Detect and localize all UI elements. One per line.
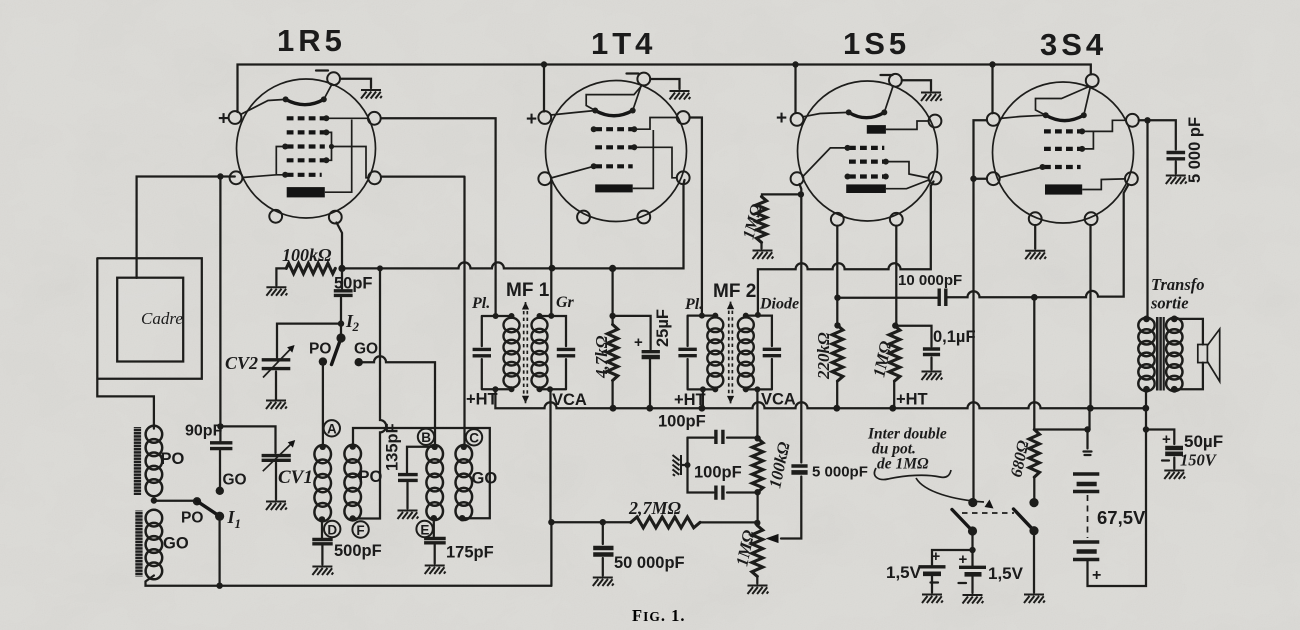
svg-text:+: + — [776, 108, 787, 129]
capacitor 90pF — [210, 443, 232, 449]
svg-text:3S4: 3S4 — [1040, 27, 1107, 62]
wire: 1R5 plate lead to MF1 primary top — [381, 118, 496, 316]
ground below CV2 — [266, 401, 287, 410]
svg-text:67,5V: 67,5V — [1097, 507, 1146, 528]
node: right switch contact — [1029, 498, 1038, 507]
variable capacitor CV1 — [220, 426, 276, 499]
1S5 pins — [889, 74, 902, 87]
label minus at 1R5 top — [316, 69, 328, 71]
wire: secondary to speaker — [1174, 319, 1203, 389]
1T4 internal wire top-left frame — [586, 86, 642, 111]
capacitor 100pF upper — [716, 430, 723, 444]
capacitor 175pF below E — [433, 518, 436, 563]
MF2 primary tuning capacitor — [678, 349, 696, 355]
svg-text:+HT: +HT — [896, 391, 928, 409]
svg-text:+: + — [932, 548, 941, 565]
dashed mechanical link between switch poles — [962, 512, 1014, 514]
capacitor 0,1uF — [895, 326, 932, 370]
3S4 internal wire filament right to top pin — [1084, 88, 1090, 116]
wire: 680 top junction to 67,5V battery + and rail — [1034, 225, 1090, 449]
wire: 100pF bottom line — [688, 438, 758, 493]
IF transformer MF1: frame with tuning caps — [482, 316, 512, 389]
capacitor 50pF — [334, 291, 353, 296]
circled letter C — [466, 429, 482, 445]
node: PO contact of I2 — [319, 357, 327, 365]
1T4 internal wire grid3 to lower-left pin (control grid) — [551, 166, 594, 178]
svg-text:A: A — [327, 422, 337, 437]
svg-text:+HT: +HT — [466, 391, 498, 409]
vacuum tube V3 1S5 envelope — [798, 81, 938, 221]
node: GO contact of I2 — [355, 358, 363, 366]
svg-text:CV2: CV2 — [225, 353, 258, 373]
svg-text:90pF: 90pF — [185, 423, 223, 440]
node: coil D bottom — [319, 516, 325, 522]
svg-text:D: D — [327, 522, 337, 537]
svg-text:175pF: 175pF — [446, 544, 494, 562]
svg-text:0,1µF: 0,1µF — [933, 328, 976, 346]
resistor 100k diode load — [752, 438, 763, 492]
1S5 anode plate — [846, 184, 886, 193]
ground at 1T4 top — [670, 91, 691, 100]
capacitor 50000pF — [602, 522, 604, 575]
1S5 filament arc — [849, 112, 885, 117]
wire: ground tap on 100pF box — [682, 464, 688, 466]
wiper arrow of 1M potentiometer — [766, 534, 779, 543]
svg-text:2: 2 — [352, 319, 360, 334]
ground below CV1 — [266, 502, 287, 511]
svg-text:50 000pF: 50 000pF — [614, 554, 685, 572]
circled letter D — [324, 521, 340, 537]
node: rail junction 220k bottom — [833, 405, 840, 412]
capacitor 100pF lower — [716, 486, 723, 500]
svg-text:25µF: 25µF — [654, 309, 672, 347]
svg-text:100pF: 100pF — [658, 413, 706, 431]
wire: MF1 bottom-left to +HT rail (drawn with rail) — [492, 386, 498, 392]
output transformer laminated core — [1156, 317, 1165, 391]
ground left of 100pF box (rotated) — [673, 455, 682, 476]
node: top bus junction above 3S4 left pin — [989, 61, 995, 67]
svg-text:500pF: 500pF — [334, 542, 382, 560]
svg-text:150V: 150V — [1180, 451, 1218, 470]
svg-text:5 000 pF: 5 000 pF — [1186, 117, 1204, 183]
wire: F-bottom riser from AVC bus down to F coil bottom, hops link line — [352, 268, 386, 518]
wire: 1S5 bottom-right pin riser to 1M — [894, 226, 896, 326]
1R5 internal bracket grids 2+4 and wire to lower-right pin — [326, 132, 368, 177]
node: right switch pivot — [1029, 526, 1038, 535]
label minus right battery — [959, 582, 967, 584]
3S4 internal bracket grids 1+2 and wire to upper-right pin — [1082, 120, 1126, 149]
svg-text:PO: PO — [309, 341, 331, 358]
battery 67,5V dashed middle — [1087, 495, 1089, 538]
node: junction AVC bus with 4.7k riser — [609, 265, 616, 272]
battery 1,5V left — [919, 565, 946, 568]
IF transformer MF2: frame with tuning caps — [688, 316, 716, 390]
svg-text:100pF: 100pF — [694, 464, 742, 482]
node: pivot of switch I2 — [336, 333, 345, 342]
svg-text:VCA: VCA — [761, 391, 796, 409]
wire: AVC bus y=268 from 100k junction to 1T4 lower-right pin, hops over MF1 risers — [342, 180, 685, 268]
svg-text:1T4: 1T4 — [591, 26, 656, 61]
resistor 220k — [832, 325, 843, 381]
wire: MF1 secondary bottom VCA riser down to AF line, hops +HT rail — [549, 389, 551, 522]
potentiometer 1M volume — [752, 526, 763, 577]
wire: 100k bottom to AF junction — [756, 492, 758, 523]
1R5 internal plate wire to grid1 bus — [325, 120, 352, 193]
svg-text:1S5: 1S5 — [843, 26, 910, 61]
1R5 filament arc — [286, 99, 324, 104]
oscillator coil F-PO — [344, 445, 361, 521]
coil GO (antenna) with core bar — [135, 511, 142, 577]
svg-text:+: + — [1092, 567, 1101, 584]
wire: VCA riser continues to bottom bus — [550, 522, 552, 586]
1T4 internal wire filament to + pin — [551, 111, 595, 116]
left switch blade (Inter pole 1) — [952, 510, 973, 532]
svg-text:1,5V: 1,5V — [988, 564, 1024, 583]
node: AF junction volume pot top — [754, 520, 760, 526]
label minus left battery — [931, 581, 939, 583]
3S4 pins — [1086, 74, 1099, 87]
3S4 internal wire grid3 to lower-left pin (control grid) — [1000, 167, 1043, 178]
resistor 4.7k screen feed — [611, 268, 613, 408]
battery 67,5V HT: top = mark — [1084, 452, 1092, 456]
ground below 3S4 lower-left pin — [1034, 225, 1036, 249]
node: junction AF line / VCA riser — [548, 519, 554, 525]
wire: 1T4 top pin to ground — [650, 79, 679, 89]
vacuum tube V4 3S4 envelope — [993, 82, 1134, 223]
MF1 primary winding — [504, 318, 520, 388]
label minus at 1S5 top — [881, 74, 893, 76]
wire: chassis bottom bus y=585.7 — [146, 576, 552, 586]
svg-text:+: + — [218, 109, 229, 130]
node: tee on I1 riser toward CV1 — [217, 423, 223, 429]
svg-text:GO: GO — [163, 535, 189, 553]
ground at 1R5 top — [361, 90, 382, 99]
wire: riser top bus to 1T4 + pin — [543, 65, 545, 112]
3S4 filament arc — [1046, 115, 1084, 120]
svg-text:1,5V: 1,5V — [886, 563, 922, 582]
node: rail end junction on output riser — [1142, 405, 1149, 412]
wire: C-top riser from 1R5 via AVC-bus hop down to coil C — [381, 177, 465, 446]
svg-text:PO: PO — [181, 510, 203, 527]
1R5 anode plate — [287, 187, 325, 197]
1R5 internal wire grid1 to upper-right pin — [326, 117, 368, 119]
node: junction cadre line / 90pF riser — [217, 173, 223, 179]
loudspeaker — [1198, 345, 1208, 363]
node: junction between PO and GO coils, tap to I1 PO contact — [151, 497, 157, 503]
svg-text:+: + — [1162, 431, 1171, 448]
wire: transformer primary bottom down through rail to 50uF junction — [1145, 389, 1147, 429]
node: top bus junction above 1S5 — [792, 61, 798, 67]
node: pivot of switch I1 — [215, 512, 224, 521]
node: rail junction 4.7k bottom — [610, 405, 617, 412]
wire: +HT rail y=408.2 from MF1 bottom to output transformer riser with hops — [495, 389, 1145, 408]
capacitor 135pF across B coil — [407, 447, 435, 509]
wire: right switch pivot to ground — [1033, 531, 1035, 593]
capacitor 5000pF coupling — [791, 464, 807, 467]
1T4 grid rows (3) — [595, 127, 633, 131]
wire: 10000pF line y=297 from 220k riser to 3S4 lower-right pin, hops LT riser and 3S4 plate riser — [838, 185, 1129, 298]
svg-text:PO: PO — [359, 468, 383, 486]
wire: PO contact riser down to coil A top — [322, 362, 324, 446]
svg-text:Gr: Gr — [556, 294, 575, 311]
battery 67,5V upper cell group — [1073, 472, 1099, 475]
svg-text:C: C — [469, 431, 479, 446]
wire: 3S4 lower-left pin to LT riser — [974, 178, 988, 180]
1T4 filament arc — [595, 111, 633, 116]
svg-text:MF 2: MF 2 — [713, 281, 756, 302]
1T4 anode plate — [595, 184, 633, 192]
svg-text:220kΩ: 220kΩ — [814, 332, 833, 380]
vacuum tube V1 1R5 envelope — [237, 79, 376, 218]
node: coil F top — [350, 443, 356, 449]
wire: riser top bus to 1S5 + pin — [794, 65, 796, 114]
3S4 internal filament centre-tap bracket to top pin — [1036, 87, 1090, 116]
3S4 anode plate — [1045, 184, 1082, 194]
capacitor 10000pF (in line, vertical plates) — [939, 289, 946, 307]
svg-text:F: F — [356, 523, 364, 538]
wire: coil tap to PO contact of switch I1 — [154, 500, 197, 502]
wire: LT riser from 3S4 filament pins down to switch contact — [974, 120, 988, 498]
capacitor 500pF below D — [321, 519, 324, 564]
wire: diode line y=269 from MF2 Diode terminal to 1S5 lower-right pin, hops 3 risers — [758, 182, 934, 315]
ground at 1S5 top — [921, 93, 942, 102]
curved arrow to switch — [916, 478, 984, 502]
1T4 pins — [637, 73, 650, 86]
svg-text:GO: GO — [354, 341, 378, 358]
svg-text:50µF: 50µF — [1184, 432, 1223, 451]
circled letter F — [352, 521, 368, 537]
3S4 internal plate wire to lower-right pin — [1082, 179, 1125, 190]
wire: top filament bus (+A) from 1R5 + pin to 3S4 top pin — [238, 65, 1091, 113]
resistor 2,7M AVC — [551, 521, 757, 523]
label minus at 1T4 top — [627, 72, 639, 74]
output transformer secondary — [1166, 318, 1182, 391]
wire: 1R5 bottom-right pin down to junction — [337, 223, 343, 336]
node: GO contact of switch I1 — [216, 487, 224, 495]
wire: 67,5V + to output riser bottom — [1088, 430, 1147, 587]
coil B-E — [426, 445, 443, 520]
wire: 1T4 plate lead to MF2 primary top — [690, 118, 702, 316]
svg-text:2,7MΩ: 2,7MΩ — [628, 498, 682, 518]
svg-text:GO: GO — [223, 472, 247, 489]
MF1 adjustable core (dashed with arrows) — [524, 311, 528, 394]
MF1 secondary winding — [532, 318, 548, 388]
battery 67,5V lower cell group — [1073, 540, 1099, 543]
node: junction AVC bus with oscillator coil riser — [377, 265, 383, 271]
node: bottom bus junction with I1 riser — [216, 583, 222, 589]
oscillator coil A-D — [314, 445, 331, 521]
wire: MF2 +HT stub to rail — [702, 389, 704, 408]
svg-text:de 1MΩ: de 1MΩ — [877, 456, 929, 473]
ground below 100k — [266, 287, 287, 296]
1R5 pins — [327, 72, 340, 85]
node: coil A top — [320, 444, 326, 450]
1T4 internal wire grid2 to lower-right pin — [634, 147, 677, 178]
node: left switch contact — [968, 498, 977, 507]
node: MF2 Diode terminal — [755, 312, 761, 318]
resistor 100k oscillator grid leak — [286, 263, 335, 273]
svg-text:Cadre: Cadre — [141, 309, 183, 328]
vacuum tube V2 1T4 envelope — [546, 81, 687, 222]
svg-text:50pF: 50pF — [334, 275, 373, 293]
coil C-GO — [456, 445, 473, 520]
circled letter B — [418, 429, 434, 445]
MF2 secondary winding — [738, 317, 754, 387]
svg-text:GO: GO — [472, 470, 498, 488]
wire: 1S5 top pin to ground — [902, 80, 931, 90]
wire: 3S4 plate to junction, 5000pF branch and transformer primary — [1139, 120, 1176, 319]
svg-text:CV1: CV1 — [278, 467, 313, 488]
svg-text:5 000pF: 5 000pF — [812, 464, 868, 481]
svg-text:+HT: +HT — [674, 391, 706, 409]
svg-text:4,7kΩ: 4,7kΩ — [592, 335, 611, 379]
svg-text:+: + — [634, 334, 643, 351]
wire: link line y=428 F-top to C-bottom box — [353, 428, 490, 518]
resistor 1M (screen bleeder) — [889, 326, 900, 381]
node: junction AF line / 50000pF — [600, 519, 606, 525]
1S5 internal wire filament to + pin — [803, 112, 849, 116]
wire: 1R5 top pin to ground — [340, 79, 371, 88]
right switch blade (Inter pole 2) — [1014, 509, 1035, 531]
coil PO (antenna) with core bar — [134, 427, 141, 495]
wire: MF2 secondary bottom VCA riser down to 100k, hops rail — [756, 389, 758, 438]
3S4 internal wire filament left to upper-left pin — [1000, 115, 1046, 118]
svg-text:PO: PO — [161, 450, 185, 468]
resistor 680 ohm — [1033, 297, 1035, 498]
1R5 internal wire filament to + pin — [241, 99, 286, 114]
MF2 secondary tuning capacitor — [763, 349, 781, 355]
svg-text:Diode: Diode — [759, 296, 799, 313]
svg-text:B: B — [421, 430, 431, 445]
circled letter A — [324, 420, 340, 436]
output transformer primary — [1138, 318, 1154, 391]
svg-text:10 000pF: 10 000pF — [898, 272, 962, 289]
switch I2 blade — [332, 338, 342, 365]
1S5 internal wire filament to top pin — [884, 87, 893, 113]
svg-text:MF 1: MF 1 — [506, 280, 550, 301]
node: coil F bottom — [350, 515, 356, 521]
label minus at 50uF — [1162, 459, 1169, 461]
node: top bus junction above 1T4 — [541, 61, 547, 67]
svg-text:E: E — [420, 522, 429, 537]
node: rail junction 25uF bottom — [646, 405, 653, 412]
wire: pivot down to battery junction — [971, 531, 973, 566]
svg-text:1: 1 — [235, 516, 242, 531]
capacitor 25uF screen bypass — [613, 316, 651, 408]
svg-text:+: + — [526, 109, 537, 130]
wire: 1S5 grid riser down through 5000pF coupling cap to potentiometer wiper — [781, 194, 801, 538]
1T4 internal wire grid1 to upper-right pin — [634, 118, 677, 130]
variable capacitor CV2 — [276, 324, 341, 400]
wire: MF1 secondary top to 1T4 grid (Gr riser) — [550, 179, 552, 316]
svg-text:1R5: 1R5 — [277, 23, 346, 58]
svg-text:135pF: 135pF — [384, 423, 402, 471]
node: left switch pivot — [968, 526, 977, 535]
node: rail junction battery/3S4 filament riser — [1087, 405, 1094, 412]
1S5 internal plate wire — [886, 180, 929, 189]
wire: branch to left 1,5V battery — [932, 550, 973, 565]
flourish under annotation — [874, 468, 951, 480]
wire: 100k left lead to ground — [276, 268, 286, 285]
battery 1,5V right — [959, 566, 986, 569]
svg-text:FIG. 1.: FIG. 1. — [632, 606, 685, 625]
1S5 internal wire grid2 to lower-right pin — [886, 162, 929, 178]
svg-text:Pl.: Pl. — [684, 296, 703, 313]
1T4 internal plate wire — [633, 130, 654, 188]
wire: riser top bus to 3S4 upper-left pin — [991, 65, 993, 114]
frame antenna Cadre: outer loop — [97, 177, 235, 429]
capacitor 50uF 150V electrolytic — [1146, 430, 1174, 469]
svg-text:+: + — [959, 551, 968, 568]
resistor 1M grid leak of 1S5 — [762, 184, 802, 249]
MF1 primary tuning capacitor — [473, 349, 491, 355]
node: PO contact of switch I1 — [193, 497, 201, 505]
MF2 adjustable core (dashed with arrows) — [729, 311, 733, 395]
switch I1 blade — [197, 501, 220, 516]
svg-text:Pl.: Pl. — [471, 295, 490, 312]
node: rail junction MF2 +HT stub — [699, 405, 706, 412]
node: junction CV2 line on I2 riser — [338, 320, 344, 326]
MF1 secondary tuning capacitor — [557, 349, 575, 355]
node: junction 10000pF line with 680ohm riser — [1031, 294, 1038, 301]
1R5 grid rows (5) — [287, 116, 325, 120]
wire: 1S5 bottom-left pin riser to 220k — [836, 226, 838, 326]
circled letter E — [416, 521, 432, 537]
1T4 internal wire filament to top pin — [633, 86, 642, 111]
1R5 internal bracket grids 3+5 and wire to lower-left pin — [242, 147, 285, 178]
1S5 diode anode bar — [867, 125, 886, 134]
svg-text:100kΩ: 100kΩ — [282, 245, 332, 265]
3S4 grid rows (3) — [1044, 129, 1081, 133]
1S5 grid rows (3) — [849, 146, 884, 150]
1R5 internal wire filament to top pin — [324, 85, 332, 99]
frame antenna Cadre: inner loop — [117, 278, 183, 362]
1S5 internal diode wire to upper-right pin — [886, 121, 929, 129]
wire: GO contact to B-coil riser, hops F riser — [359, 356, 435, 446]
node: rail junction 1M bottom — [889, 405, 896, 412]
svg-text:sortie: sortie — [1150, 294, 1189, 313]
node: junction both 1.5V batteries — [969, 547, 975, 553]
svg-text:Transfo: Transfo — [1151, 275, 1204, 294]
svg-text:VCA: VCA — [552, 391, 587, 409]
capacitor 5000pF tone — [1167, 153, 1186, 159]
wire: I1 riser x=219.6 with 90pF cap from cadre line to bottom bus — [218, 177, 221, 586]
node: junction 100k / 50pF / AVC bus / 1R5 pin — [338, 265, 345, 272]
wire: 100pF top line — [688, 436, 758, 438]
MF2 primary winding — [707, 317, 723, 387]
1S5 internal wire grid1 to lower-left pin (control grid) — [803, 148, 847, 176]
node: junction AVC bus with MF1 Gr riser — [549, 265, 556, 272]
